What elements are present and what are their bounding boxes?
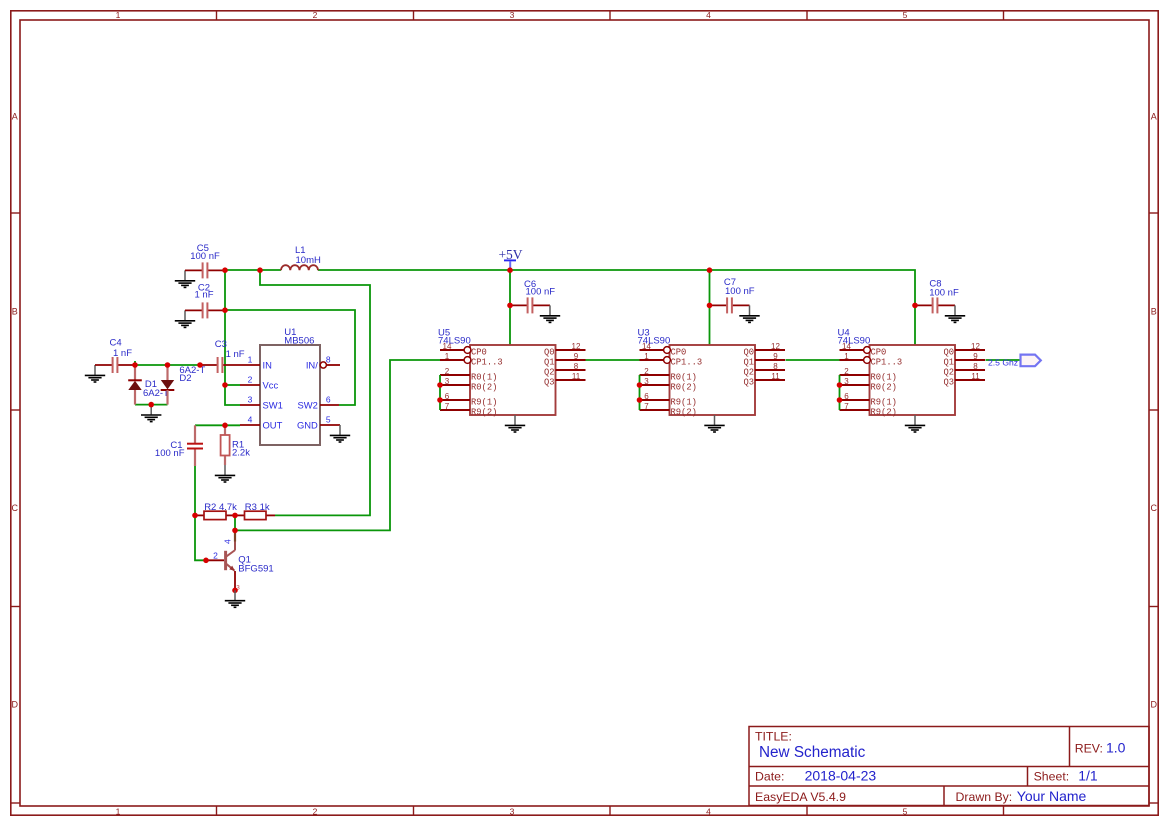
junction bbox=[192, 513, 198, 519]
wire +5V rail left bbox=[225, 269, 281, 271]
svg-text:2018-04-23: 2018-04-23 bbox=[805, 768, 877, 784]
wire stub D1 top bbox=[134, 361, 136, 365]
svg-text:100 nF: 100 nF bbox=[155, 448, 185, 459]
svg-text:11: 11 bbox=[771, 372, 780, 381]
svg-text:R9(1): R9(1) bbox=[671, 398, 697, 408]
ground U4 bbox=[905, 415, 925, 432]
svg-text:1 nF: 1 nF bbox=[194, 290, 213, 301]
svg-text:100 nF: 100 nF bbox=[725, 286, 755, 297]
junction U5 pin3 bbox=[437, 382, 443, 388]
wire U4 reset pins tie bbox=[839, 375, 841, 410]
svg-text:Drawn By:: Drawn By: bbox=[956, 790, 1013, 804]
junction bbox=[507, 303, 513, 309]
svg-text:4: 4 bbox=[223, 539, 233, 544]
capacitor C4 bbox=[95, 357, 135, 373]
svg-text:8: 8 bbox=[326, 354, 331, 364]
ground C5 bbox=[175, 270, 195, 287]
svg-text:CP0: CP0 bbox=[471, 348, 487, 358]
svg-text:2: 2 bbox=[844, 367, 849, 376]
svg-text:IN/: IN/ bbox=[306, 359, 318, 370]
junction bbox=[148, 402, 154, 408]
svg-text:3: 3 bbox=[445, 377, 450, 386]
svg-text:Q2: Q2 bbox=[743, 368, 754, 378]
svg-text:7: 7 bbox=[844, 402, 849, 411]
diode D2 bbox=[161, 365, 175, 405]
svg-text:R9(1): R9(1) bbox=[871, 398, 897, 408]
IC U5 74LS90 body bbox=[440, 345, 586, 415]
junction U3 pin3 bbox=[637, 382, 643, 388]
svg-text:1: 1 bbox=[445, 352, 450, 361]
wire diode cathodes bbox=[135, 404, 168, 406]
junction U4 pin3 bbox=[837, 382, 843, 388]
capacitor C6 bbox=[510, 297, 550, 313]
svg-text:B: B bbox=[1151, 307, 1157, 317]
IC U3 74LS90 body bbox=[640, 345, 786, 415]
svg-text:3: 3 bbox=[510, 10, 515, 20]
junction Q1 emitter bbox=[232, 588, 238, 594]
diode D1 bbox=[128, 365, 142, 405]
svg-text:SW1: SW1 bbox=[263, 399, 283, 410]
junction bbox=[197, 362, 203, 368]
svg-text:MB506: MB506 bbox=[284, 335, 314, 346]
svg-text:8: 8 bbox=[773, 362, 778, 371]
junction bbox=[507, 267, 513, 273]
wire +5V rail to U4 bbox=[318, 270, 915, 345]
ground C6 bbox=[540, 305, 560, 322]
ground C2 bbox=[175, 310, 195, 327]
svg-text:R9(2): R9(2) bbox=[471, 408, 497, 418]
+5V power flag bbox=[498, 247, 522, 270]
svg-text:CP0: CP0 bbox=[671, 348, 687, 358]
svg-text:GND: GND bbox=[297, 419, 318, 430]
svg-text:R2 4.7k: R2 4.7k bbox=[204, 502, 237, 513]
svg-text:C4: C4 bbox=[110, 338, 122, 349]
svg-text:6: 6 bbox=[644, 392, 649, 401]
svg-text:R0(1): R0(1) bbox=[871, 373, 897, 383]
svg-text:5: 5 bbox=[903, 806, 908, 816]
svg-text:Q0: Q0 bbox=[943, 348, 954, 358]
junction bbox=[707, 303, 713, 309]
junction bbox=[232, 528, 238, 534]
svg-text:74LS90: 74LS90 bbox=[838, 335, 871, 346]
svg-text:12: 12 bbox=[771, 342, 780, 351]
svg-text:74LS90: 74LS90 bbox=[638, 335, 671, 346]
svg-text:100 nF: 100 nF bbox=[929, 287, 959, 298]
svg-text:1: 1 bbox=[844, 352, 849, 361]
svg-text:C: C bbox=[1151, 503, 1158, 513]
junction bbox=[222, 267, 228, 273]
svg-text:New Schematic: New Schematic bbox=[759, 744, 866, 761]
svg-text:2: 2 bbox=[313, 806, 318, 816]
junction U4 pin6 bbox=[837, 397, 843, 403]
svg-text:9: 9 bbox=[574, 352, 579, 361]
svg-text:Q3: Q3 bbox=[943, 378, 954, 388]
svg-text:4: 4 bbox=[706, 10, 711, 20]
svg-text:R0(1): R0(1) bbox=[471, 373, 497, 383]
svg-text:6: 6 bbox=[445, 392, 450, 401]
junction bbox=[222, 307, 228, 313]
svg-text:11: 11 bbox=[572, 372, 581, 381]
ground U3 bbox=[704, 415, 724, 432]
ground U1 GND pin bbox=[330, 425, 350, 442]
svg-text:REV:: REV: bbox=[1075, 742, 1103, 756]
junction bbox=[222, 423, 228, 429]
svg-text:7: 7 bbox=[445, 402, 450, 411]
svg-text:3: 3 bbox=[844, 377, 849, 386]
svg-text:2: 2 bbox=[445, 367, 450, 376]
svg-text:Q0: Q0 bbox=[743, 348, 754, 358]
svg-text:R0(2): R0(2) bbox=[671, 383, 697, 393]
ground C7 bbox=[739, 305, 759, 322]
svg-text:D2: D2 bbox=[179, 373, 191, 384]
wire Vcc stub bbox=[225, 384, 240, 386]
svg-text:Q1: Q1 bbox=[544, 358, 555, 368]
wire +5V drop to U5 bbox=[509, 270, 511, 345]
svg-text:R0(2): R0(2) bbox=[471, 383, 497, 393]
svg-text:Q2: Q2 bbox=[544, 368, 555, 378]
resistor R2 bbox=[195, 511, 235, 519]
svg-text:SW2: SW2 bbox=[297, 399, 317, 410]
svg-text:7: 7 bbox=[644, 402, 649, 411]
svg-text:3: 3 bbox=[510, 806, 515, 816]
svg-text:IN: IN bbox=[263, 359, 272, 370]
svg-text:R9(2): R9(2) bbox=[871, 408, 897, 418]
svg-text:EasyEDA V5.4.9: EasyEDA V5.4.9 bbox=[755, 790, 846, 804]
svg-text:Q3: Q3 bbox=[743, 378, 754, 388]
junction bbox=[132, 362, 138, 368]
capacitor C7 bbox=[710, 297, 750, 313]
ground R1 bbox=[215, 465, 235, 482]
svg-text:10mH: 10mH bbox=[296, 255, 321, 266]
svg-text:R9(1): R9(1) bbox=[471, 398, 497, 408]
svg-text:Q2: Q2 bbox=[943, 368, 954, 378]
svg-text:1: 1 bbox=[248, 354, 253, 364]
capacitor C8 bbox=[915, 297, 955, 313]
svg-text:5: 5 bbox=[326, 414, 331, 424]
svg-text:2: 2 bbox=[213, 550, 218, 560]
svg-text:2.2k: 2.2k bbox=[232, 447, 250, 458]
wire +5V to R3 bbox=[260, 270, 370, 515]
svg-text:4: 4 bbox=[706, 806, 711, 816]
svg-text:74LS90: 74LS90 bbox=[438, 335, 471, 346]
svg-text:1.0: 1.0 bbox=[1106, 740, 1126, 756]
svg-text:R3 1k: R3 1k bbox=[245, 502, 270, 513]
wire C1 to Q1 base bbox=[195, 466, 206, 560]
svg-text:2: 2 bbox=[248, 374, 253, 384]
title block frame bbox=[749, 727, 1149, 806]
svg-text:Q1: Q1 bbox=[743, 358, 754, 368]
svg-text:D: D bbox=[12, 700, 19, 710]
svg-text:1: 1 bbox=[116, 10, 121, 20]
svg-text:Vcc: Vcc bbox=[263, 379, 279, 390]
junction U5 pin6 bbox=[437, 397, 443, 403]
svg-text:CP1..3: CP1..3 bbox=[471, 358, 503, 368]
svg-text:BFG591: BFG591 bbox=[238, 564, 273, 575]
svg-text:1: 1 bbox=[644, 352, 649, 361]
wire C2 to SW2 bbox=[225, 310, 355, 405]
svg-text:B: B bbox=[12, 307, 18, 317]
wire +5V drop to U3 bbox=[709, 270, 711, 345]
svg-text:OUT: OUT bbox=[263, 419, 283, 430]
wire U5 Q1 to U3 bbox=[586, 359, 641, 361]
svg-text:6: 6 bbox=[326, 394, 331, 404]
svg-text:C: C bbox=[12, 503, 19, 513]
svg-text:5: 5 bbox=[903, 10, 908, 20]
wire C5/C2/Vcc/SW1 vertical bbox=[225, 270, 240, 405]
capacitor C1 bbox=[187, 425, 203, 466]
svg-text:CP1..3: CP1..3 bbox=[871, 358, 903, 368]
svg-text:D: D bbox=[1151, 700, 1158, 710]
transistor Q1 bbox=[206, 530, 235, 590]
svg-text:11: 11 bbox=[971, 372, 980, 381]
svg-text:3: 3 bbox=[248, 394, 253, 404]
wire U3 reset pins tie bbox=[639, 375, 641, 410]
svg-text:Date:: Date: bbox=[755, 770, 784, 784]
svg-text:Your Name: Your Name bbox=[1017, 788, 1087, 804]
svg-text:2: 2 bbox=[644, 367, 649, 376]
wire OUT net bbox=[195, 424, 240, 426]
op-amp U1 MB506 body bbox=[240, 345, 340, 445]
svg-text:A: A bbox=[1151, 112, 1157, 122]
IC U4 74LS90 body bbox=[840, 345, 986, 415]
svg-text:3: 3 bbox=[644, 377, 649, 386]
junction bbox=[707, 267, 713, 273]
svg-text:1 nF: 1 nF bbox=[113, 348, 132, 359]
svg-text:8: 8 bbox=[574, 362, 579, 371]
svg-text:12: 12 bbox=[572, 342, 581, 351]
svg-text:9: 9 bbox=[773, 352, 778, 361]
svg-text:CP1..3: CP1..3 bbox=[671, 358, 703, 368]
junction bbox=[222, 382, 228, 388]
svg-text:100 nF: 100 nF bbox=[190, 251, 220, 262]
svg-text:R0(2): R0(2) bbox=[871, 383, 897, 393]
svg-text:1 nF: 1 nF bbox=[226, 349, 245, 360]
svg-text:Q0: Q0 bbox=[544, 348, 555, 358]
svg-text:1/1: 1/1 bbox=[1078, 768, 1098, 784]
junction bbox=[257, 267, 263, 273]
svg-text:100 nF: 100 nF bbox=[526, 287, 556, 298]
svg-text:CP0: CP0 bbox=[871, 348, 887, 358]
svg-text:2: 2 bbox=[313, 10, 318, 20]
svg-text:12: 12 bbox=[971, 342, 980, 351]
resistor R1 bbox=[221, 425, 230, 465]
junction bbox=[165, 362, 171, 368]
svg-text:A: A bbox=[12, 112, 18, 122]
capacitor C5 bbox=[185, 262, 225, 278]
svg-text:6: 6 bbox=[844, 392, 849, 401]
ground U5 bbox=[505, 415, 525, 432]
svg-text:1: 1 bbox=[116, 806, 121, 816]
ground D1 D2 bbox=[141, 405, 161, 422]
junction bbox=[912, 303, 918, 309]
junction bbox=[203, 558, 209, 564]
ground C8 bbox=[945, 305, 965, 322]
inductor L1 bbox=[281, 265, 318, 270]
capacitor C3 bbox=[200, 357, 240, 373]
svg-text:R9(2): R9(2) bbox=[671, 408, 697, 418]
svg-text:R0(1): R0(1) bbox=[671, 373, 697, 383]
svg-text:Q1: Q1 bbox=[943, 358, 954, 368]
svg-text:4: 4 bbox=[248, 414, 253, 424]
svg-text:9: 9 bbox=[973, 352, 978, 361]
junction bbox=[232, 513, 238, 519]
wire C4/D1/D2/C3 net bbox=[135, 364, 200, 366]
svg-text:Sheet:: Sheet: bbox=[1034, 770, 1070, 784]
svg-text:Q3: Q3 bbox=[544, 378, 555, 388]
svg-text:8: 8 bbox=[973, 362, 978, 371]
ground Q1 bbox=[225, 590, 245, 607]
ground C4 bbox=[85, 365, 105, 382]
wire U3 Q1 to U4 bbox=[786, 359, 841, 361]
net port 2.5 Ghz flag bbox=[1021, 355, 1041, 367]
capacitor C2 bbox=[185, 302, 225, 318]
resistor R3 bbox=[235, 511, 275, 519]
svg-text:2.5 Ghz: 2.5 Ghz bbox=[988, 358, 1018, 368]
wire collector to U5 CP1..3 bbox=[235, 360, 440, 530]
wire R junction to collector bbox=[234, 515, 236, 530]
svg-text:TITLE:: TITLE: bbox=[755, 729, 792, 743]
wire U5 reset pins tie bbox=[439, 375, 441, 410]
junction U3 pin6 bbox=[637, 397, 643, 403]
wire U4 Q1 to output bbox=[986, 359, 1022, 361]
